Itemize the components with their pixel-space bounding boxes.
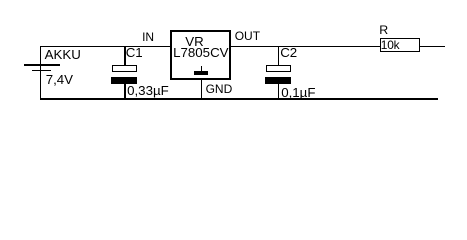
label GND: [206, 83, 233, 95]
wire C1 top lead: [124, 47, 125, 66]
label C2: [280, 46, 297, 59]
label IN: [142, 31, 154, 43]
capacitor C1 bottom plate: [111, 77, 137, 84]
wire bottom rail: [40, 98, 438, 99]
capacitor C2 top plate: [266, 65, 291, 73]
value 0,1µF: [281, 86, 315, 99]
wire left vertical: [40, 46, 41, 100]
regulator VR L7805CV box: [170, 30, 230, 81]
wire C2 top lead: [278, 47, 279, 66]
capacitor C1 top plate: [112, 65, 137, 73]
value 10k: [381, 40, 400, 52]
label C1: [126, 46, 143, 59]
ground symbol bar: [194, 71, 208, 75]
battery AKKU positive (long) plate: [24, 64, 60, 66]
value 7,4V: [46, 73, 73, 86]
value L7805CV: [173, 46, 228, 59]
battery AKKU negative (short) plate: [32, 70, 51, 72]
wire C1 bottom lead: [124, 84, 125, 99]
wire top rail: [40, 46, 445, 47]
label VR: [185, 35, 203, 48]
label OUT: [235, 30, 260, 42]
label AKKU: [45, 48, 81, 61]
wire GND pin: [201, 80, 202, 98]
resistor R body: [380, 38, 421, 52]
capacitor C2 bottom plate: [265, 77, 291, 84]
wire C2 bottom lead: [278, 84, 279, 99]
value 0,33µF: [127, 84, 169, 97]
label R: [379, 24, 388, 36]
ground symbol stem: [201, 66, 202, 72]
